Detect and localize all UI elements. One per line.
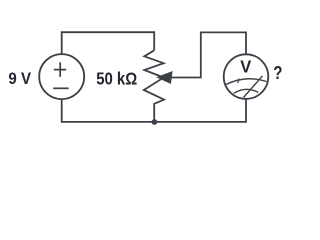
svg-text:V: V — [240, 57, 251, 77]
svg-text:50 kΩ: 50 kΩ — [96, 69, 137, 89]
svg-text:?: ? — [273, 62, 282, 83]
svg-text:9 V: 9 V — [8, 70, 31, 88]
